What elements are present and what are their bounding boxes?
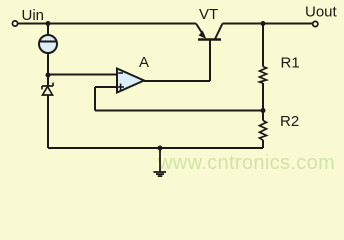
svg-text:R1: R1	[281, 55, 300, 72]
wire R2 to bottom rail	[262, 140, 264, 148]
label R2	[280, 113, 299, 130]
current source I1	[39, 35, 57, 53]
node junction Uout/R1	[261, 21, 266, 26]
wire zener to bottom rail	[47, 95, 49, 148]
label Uin	[22, 7, 45, 24]
label VT	[199, 6, 218, 23]
terminal Uout	[313, 21, 318, 26]
wire R1 to tap	[262, 83, 264, 111]
svg-text:A: A	[139, 54, 149, 71]
node ground junction	[158, 146, 163, 151]
label R1	[281, 55, 300, 72]
wire bottom rail	[48, 147, 263, 149]
wire base lead of VT	[209, 41, 211, 82]
wire top-left (Uin to VT emitter)	[18, 23, 196, 25]
resistor R1	[260, 67, 267, 84]
wire junction to current source	[47, 24, 49, 36]
svg-text:Uin: Uin	[22, 7, 45, 24]
node junction Uin/current-source	[46, 21, 51, 26]
svg-text:VT: VT	[199, 6, 218, 23]
wire feedback vertical	[94, 87, 96, 111]
wire top-right (VT to Uout)	[223, 23, 313, 25]
wire op-amp output	[144, 80, 210, 82]
wire node to zener	[47, 75, 49, 86]
wire node to op-amp minus input	[48, 74, 117, 76]
svg-text:Uout: Uout	[305, 3, 338, 20]
label Uout	[305, 3, 338, 20]
transistor VT	[196, 24, 223, 40]
node divider tap	[261, 108, 266, 113]
wire feedback to divider tap	[95, 110, 263, 112]
wire op-amp plus input	[95, 86, 117, 88]
zener diode VD	[42, 83, 53, 95]
wire tap to R2	[262, 111, 264, 121]
ground	[154, 148, 167, 176]
resistor R2	[260, 121, 267, 141]
node junction zener/op-amp input	[46, 73, 51, 78]
svg-text:R2: R2	[280, 113, 299, 130]
terminal Uin	[12, 21, 17, 26]
svg-text:www.cntronics.com: www.cntronics.com	[157, 152, 335, 174]
wire node to R1	[262, 24, 264, 67]
op-amp A	[117, 69, 144, 93]
label A	[139, 54, 149, 71]
wire current source to node	[47, 53, 49, 75]
